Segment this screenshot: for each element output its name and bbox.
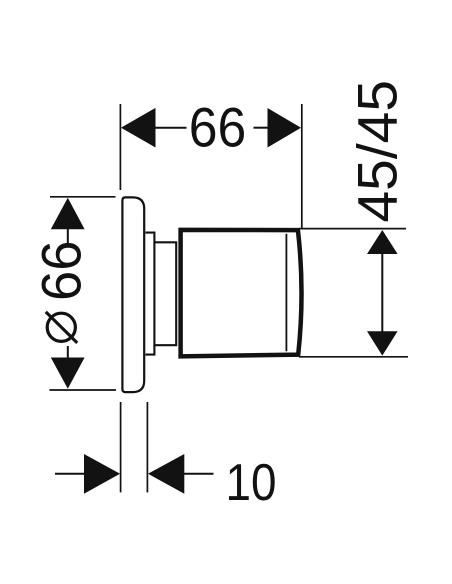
svg-text:10: 10 — [226, 453, 277, 511]
dimension line right segment of 66 — [254, 127, 269, 129]
extension line left of 66 dimension — [119, 104, 121, 190]
svg-text:45/45: 45/45 — [347, 80, 409, 223]
dimension tail line left of 10 — [55, 473, 85, 475]
stem step 2 — [154, 242, 176, 345]
arrow left of 10 dimension pointing right — [84, 454, 120, 494]
extension line top of 45/45 dimension — [299, 228, 406, 230]
knob front face line — [285, 234, 287, 351]
arrow up of diameter 66 dimension — [51, 198, 85, 230]
diameter symbol slash — [46, 312, 77, 343]
arrow down of diameter 66 dimension — [51, 358, 85, 389]
arrow right of 66 dimension — [268, 108, 302, 148]
svg-text:66: 66 — [189, 97, 247, 159]
dimension tail line right of 10 — [184, 473, 214, 475]
dimension line upper segment of diameter 66 — [67, 229, 69, 244]
escutcheon plate (side view) — [122, 197, 144, 392]
dimension line of 45/45 — [381, 253, 383, 332]
dimension line left segment of 66 — [154, 127, 187, 129]
extension line top of diameter 66 dimension — [50, 196, 116, 198]
arrow left of 66 dimension — [121, 108, 156, 148]
stem step 1 — [146, 233, 155, 355]
extension line bottom of diameter 66 dimension — [49, 389, 116, 391]
diameter symbol circle — [47, 313, 75, 341]
knob body (thick outline) — [181, 230, 302, 357]
arrow right of 10 dimension pointing left — [148, 454, 184, 494]
dimension line lower segment of diameter 66 — [67, 346, 69, 359]
extension line left of 10 dimension — [120, 402, 122, 492]
arrow up of 45/45 dimension — [367, 230, 398, 254]
svg-text:66: 66 — [31, 241, 93, 302]
extension line bottom of 45/45 dimension — [299, 356, 408, 358]
arrow down of 45/45 dimension — [367, 331, 398, 355]
extension line right of 10 dimension — [146, 402, 148, 492]
extension line right of 66 dimension — [301, 104, 303, 229]
